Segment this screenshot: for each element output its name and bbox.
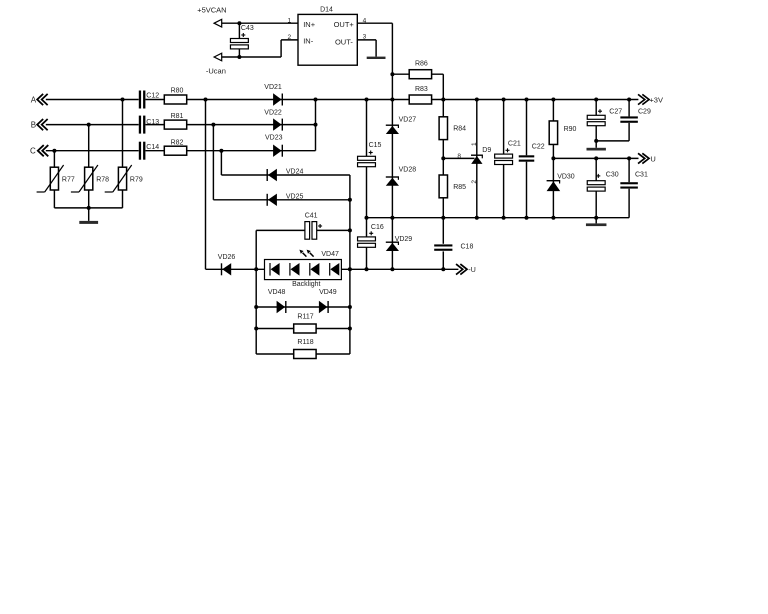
svg-text:Backlight: Backlight <box>292 281 320 288</box>
svg-text:C15: C15 <box>369 142 382 149</box>
svg-text:VD47: VD47 <box>321 251 339 258</box>
svg-text:4: 4 <box>363 17 367 24</box>
svg-text:C41: C41 <box>305 213 318 220</box>
svg-text:IN-: IN- <box>303 37 314 46</box>
svg-text:R86: R86 <box>415 60 428 67</box>
svg-text:+5VCAN: +5VCAN <box>197 6 226 15</box>
svg-text:R90: R90 <box>564 126 577 133</box>
svg-text:U: U <box>650 154 655 163</box>
svg-text:D14: D14 <box>320 6 333 13</box>
svg-text:C13: C13 <box>146 119 159 126</box>
svg-text:R117: R117 <box>297 314 313 321</box>
svg-text:C22: C22 <box>532 143 545 150</box>
svg-text:C43: C43 <box>241 25 254 32</box>
svg-text:8: 8 <box>457 153 461 160</box>
svg-text:VD27: VD27 <box>399 117 417 124</box>
svg-text:R80: R80 <box>171 88 184 95</box>
svg-text:R81: R81 <box>171 113 184 120</box>
svg-text:R79: R79 <box>130 176 143 183</box>
svg-text:VD23: VD23 <box>265 134 283 141</box>
svg-text:OUT-: OUT- <box>335 37 353 46</box>
svg-text:C12: C12 <box>146 93 159 100</box>
svg-text:OUT+: OUT+ <box>334 20 355 29</box>
svg-text:R77: R77 <box>62 176 75 183</box>
svg-text:R84: R84 <box>453 125 466 132</box>
svg-text:C31: C31 <box>635 172 648 179</box>
svg-text:R82: R82 <box>171 140 184 147</box>
svg-text:VD29: VD29 <box>395 236 413 243</box>
svg-text:VD26: VD26 <box>218 254 236 261</box>
svg-text:-U: -U <box>468 267 475 274</box>
svg-text:2: 2 <box>287 34 291 41</box>
svg-text:C27: C27 <box>609 108 622 115</box>
svg-text:C30: C30 <box>606 172 619 179</box>
svg-text:VD24: VD24 <box>286 169 304 176</box>
svg-text:B: B <box>31 120 36 129</box>
svg-text:VD25: VD25 <box>286 193 304 200</box>
svg-text:R78: R78 <box>96 176 109 183</box>
svg-text:R85: R85 <box>453 184 466 191</box>
svg-text:C: C <box>30 147 36 156</box>
svg-text:VD48: VD48 <box>268 289 286 296</box>
svg-text:+3V: +3V <box>649 96 663 105</box>
svg-text:D9: D9 <box>482 147 491 154</box>
svg-text:VD22: VD22 <box>264 109 282 116</box>
svg-text:2: 2 <box>471 180 478 184</box>
svg-text:C18: C18 <box>461 243 474 250</box>
svg-text:3: 3 <box>363 34 367 41</box>
svg-text:1: 1 <box>471 142 478 146</box>
svg-text:C14: C14 <box>146 144 159 151</box>
svg-text:R83: R83 <box>415 86 428 93</box>
svg-text:C21: C21 <box>508 140 521 147</box>
svg-text:R118: R118 <box>297 339 313 346</box>
svg-text:A: A <box>31 95 37 104</box>
svg-text:IN+: IN+ <box>303 20 316 29</box>
svg-text:VD28: VD28 <box>399 167 417 174</box>
svg-text:-Ucan: -Ucan <box>206 67 226 76</box>
svg-text:C29: C29 <box>638 108 651 115</box>
svg-text:VD30: VD30 <box>557 174 575 181</box>
svg-text:1: 1 <box>287 17 291 24</box>
svg-text:C16: C16 <box>371 224 384 231</box>
svg-text:VD49: VD49 <box>319 289 337 296</box>
svg-text:VD21: VD21 <box>264 84 282 91</box>
